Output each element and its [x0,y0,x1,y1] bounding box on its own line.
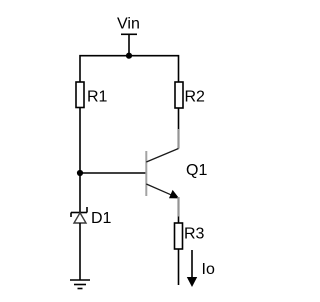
svg-text:Q1: Q1 [186,162,207,179]
resistor R2 [175,82,183,108]
wire R3 down [178,249,180,285]
resistor R1 [76,82,84,108]
junction dot node [77,170,83,176]
wire base [80,172,146,174]
resistor R3 [175,223,183,249]
wire zener to ground [79,223,81,280]
svg-text:R2: R2 [185,89,206,106]
wire left vertical [79,108,81,213]
svg-text:Vin: Vin [117,16,140,33]
svg-text:R1: R1 [87,89,108,106]
terminal Vin bar [121,33,137,35]
arrow Io [187,250,197,287]
svg-text:Io: Io [202,261,215,278]
junction dot top [126,53,132,59]
diode D1 zener [71,207,87,223]
wire top bus [80,56,179,82]
wire R2 to collector [178,108,180,129]
svg-text:R3: R3 [184,226,205,243]
svg-text:D1: D1 [91,210,112,227]
wire Vin vertical [128,34,130,55]
transistor Q1 [146,129,179,223]
ground [70,280,90,289]
